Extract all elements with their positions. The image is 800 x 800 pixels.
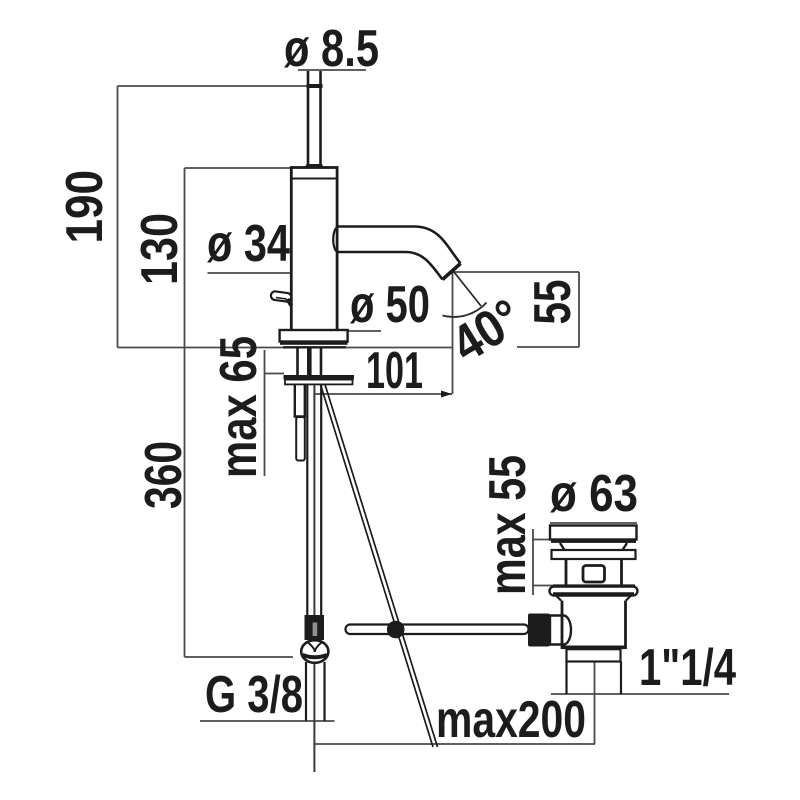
svg-text:max 55: max 55 bbox=[479, 455, 537, 595]
svg-text:ø 50: ø 50 bbox=[350, 276, 430, 334]
spout left rounded end bbox=[333, 227, 337, 252]
supply hose left segment 1 bbox=[294, 385, 307, 417]
horizontal lever bar bbox=[346, 625, 529, 635]
spout end face bbox=[443, 264, 461, 280]
dimension leader: ø 34 bbox=[208, 272, 336, 274]
clamp block bbox=[528, 614, 550, 647]
svg-text:max 65: max 65 bbox=[210, 336, 268, 478]
svg-text:130: 130 bbox=[131, 213, 189, 285]
waste body dark bottom band bbox=[562, 646, 626, 650]
tick where 190 line crosses rod bbox=[307, 84, 323, 88]
dimension 130 bracket bbox=[185, 168, 292, 657]
svg-text:ø 34: ø 34 bbox=[207, 215, 290, 273]
base flange bottom edge bbox=[283, 346, 346, 348]
svg-text:ø 8.5: ø 8.5 bbox=[284, 20, 379, 78]
G3/8 ball fitting bbox=[301, 640, 328, 663]
dimension 55 bracket bbox=[453, 272, 579, 347]
dimension max200 bbox=[314, 662, 595, 744]
waste tail step bbox=[567, 649, 621, 661]
mounting washer dark band bbox=[284, 375, 355, 380]
waste body cylinder bbox=[562, 601, 626, 650]
waste flange top line bbox=[553, 584, 635, 586]
supply pipe center line lower bbox=[313, 662, 315, 772]
handle stem bbox=[288, 299, 292, 306]
svg-text:101: 101 bbox=[366, 342, 423, 400]
waste body slot bbox=[583, 566, 605, 583]
40 degree angle leg bbox=[454, 272, 481, 306]
faucet body cap seam bbox=[293, 178, 337, 180]
dimension leader: ø 50 bbox=[348, 330, 381, 332]
threaded shank bbox=[298, 348, 322, 375]
dimension leader ø 63 bbox=[550, 522, 637, 524]
pop-up rod diagonal bbox=[321, 385, 438, 748]
waste washer band bbox=[552, 550, 636, 559]
dimension leader: ø 8.5 bbox=[298, 69, 366, 71]
waste taper below flange bbox=[556, 596, 631, 601]
dimension leader 1"1/4 bbox=[551, 693, 729, 695]
svg-text:55: 55 bbox=[524, 280, 582, 325]
base flange dark band bbox=[280, 341, 348, 345]
base flange upper bbox=[280, 330, 348, 342]
mounting nut bbox=[285, 380, 353, 385]
spout bottom edge bbox=[338, 252, 443, 280]
spout top edge bbox=[338, 227, 461, 264]
40 degree arc bbox=[443, 303, 487, 317]
dimension 360 bottom line bbox=[185, 656, 294, 658]
pop-up rod ball joint bbox=[387, 621, 405, 639]
waste cap dark underside bbox=[551, 539, 636, 543]
waste flange dark bottom bbox=[553, 592, 634, 595]
svg-text:1"1/4: 1"1/4 bbox=[639, 639, 736, 697]
counter reference line bbox=[118, 347, 453, 349]
supply hose central bbox=[307, 385, 321, 615]
handle lever bbox=[270, 291, 291, 302]
shank inner rod lines bbox=[307, 348, 312, 375]
pull rod flare bbox=[304, 164, 325, 169]
waste tail pipe bbox=[567, 662, 622, 695]
svg-text:G 3/8: G 3/8 bbox=[205, 666, 303, 724]
knurled nut bbox=[305, 615, 325, 640]
faucet body bbox=[291, 168, 337, 341]
svg-text:360: 360 bbox=[135, 441, 193, 509]
waste neck taper bbox=[560, 543, 627, 550]
waste upper body bbox=[566, 560, 622, 586]
dimension 190 bracket bbox=[118, 86, 320, 348]
supply pipe below ball bbox=[306, 662, 325, 721]
dimension 101 line with right arrow bbox=[314, 393, 452, 395]
dimension max 55 bracket bbox=[532, 529, 556, 595]
spout tip vertical extension line bbox=[452, 272, 454, 394]
dimension max 65 bbox=[265, 350, 285, 476]
svg-text:190: 190 bbox=[56, 170, 114, 244]
faucet pull rod bbox=[308, 71, 321, 164]
svg-text:ø 63: ø 63 bbox=[550, 465, 638, 523]
svg-text:max200: max200 bbox=[436, 691, 586, 749]
waste flange bbox=[550, 587, 638, 596]
supply hose left segment 2 bbox=[296, 417, 305, 461]
waste plug cap bbox=[550, 526, 637, 540]
dimension leader G 3/8 bbox=[200, 720, 335, 722]
pivot nut bbox=[550, 616, 571, 645]
